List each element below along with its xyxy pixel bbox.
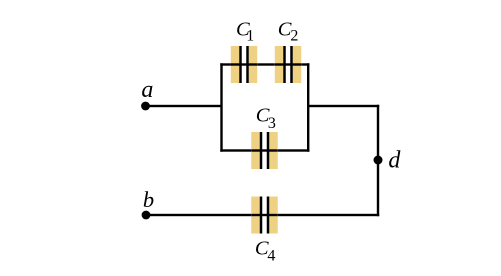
wire bottom left segment xyxy=(146,214,251,216)
capacitor C4 xyxy=(251,197,278,234)
wire top branch middle segment between C1 and C2 xyxy=(257,63,275,65)
svg-text:a: a xyxy=(141,77,153,103)
node a xyxy=(141,102,150,111)
wire middle branch left segment xyxy=(220,149,251,151)
wire right vertical of parallel box xyxy=(307,63,309,151)
svg-text:4: 4 xyxy=(267,248,275,265)
capacitor C2 xyxy=(275,46,302,83)
wire top branch right segment xyxy=(301,63,309,65)
wire top branch left segment xyxy=(220,63,231,65)
wire left vertical of parallel box xyxy=(220,63,222,151)
capacitor C1 xyxy=(231,46,258,83)
svg-text:2: 2 xyxy=(290,28,298,45)
wire a to parallel box xyxy=(146,105,223,107)
svg-text:b: b xyxy=(143,187,154,212)
node b xyxy=(142,211,151,220)
svg-text:1: 1 xyxy=(246,28,254,45)
wire box to right corner xyxy=(307,105,379,107)
capacitor C3 xyxy=(251,132,278,169)
svg-text:3: 3 xyxy=(268,115,276,132)
svg-text:d: d xyxy=(388,148,401,174)
wire bottom right segment xyxy=(278,214,379,216)
wire right vertical through node d xyxy=(377,105,379,216)
wire middle branch right segment xyxy=(278,149,310,151)
node d xyxy=(374,156,383,165)
